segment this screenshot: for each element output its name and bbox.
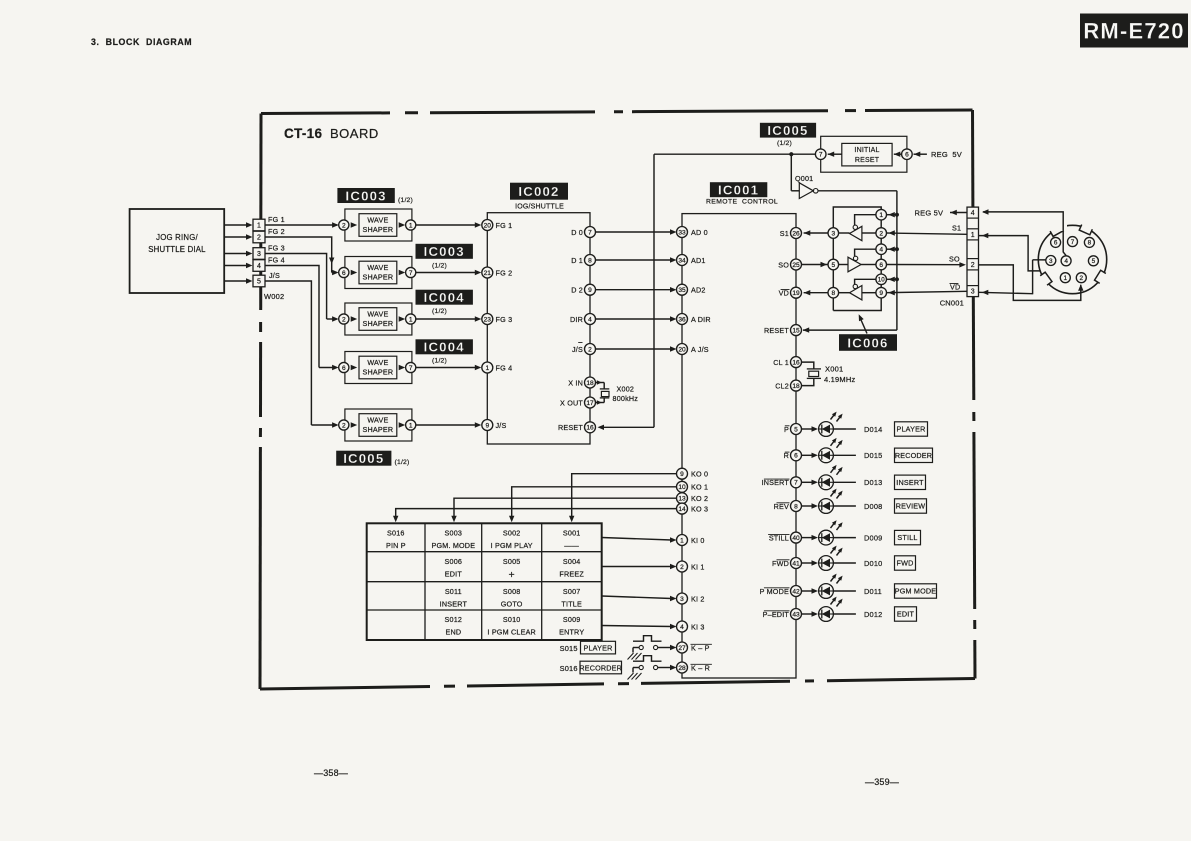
svg-text:5: 5 bbox=[1092, 258, 1096, 265]
svg-text:PIN P: PIN P bbox=[386, 541, 406, 550]
label IC001 bbox=[710, 182, 767, 197]
svg-text:40: 40 bbox=[792, 535, 800, 542]
svg-text:——: —— bbox=[564, 541, 579, 550]
svg-text:CN001: CN001 bbox=[940, 299, 964, 308]
svg-text:9: 9 bbox=[485, 422, 489, 429]
svg-text:ENTRY: ENTRY bbox=[559, 628, 584, 637]
svg-text:41: 41 bbox=[792, 560, 800, 567]
svg-text:CT-16: CT-16 bbox=[284, 126, 322, 141]
net VD: CN001-3 to IC006 pin9 bbox=[887, 291, 967, 292]
svg-text:GOTO: GOTO bbox=[501, 599, 523, 608]
svg-text:D011: D011 bbox=[864, 587, 882, 596]
svg-text:J/S: J/S bbox=[572, 345, 583, 354]
svg-text:BOARD: BOARD bbox=[330, 126, 379, 141]
svg-text:7: 7 bbox=[588, 229, 592, 236]
svg-text:PLAYER: PLAYER bbox=[896, 425, 925, 434]
svg-text:INITIAL: INITIAL bbox=[854, 147, 879, 154]
IC001 block (remote control microcomputer) bbox=[682, 214, 796, 678]
svg-text:IC002: IC002 bbox=[518, 184, 559, 199]
IC002 block (JOG/SHUTTLE processor) bbox=[487, 213, 590, 444]
8-pin remote connector (mating plug) bbox=[1038, 225, 1106, 293]
svg-text:IC005: IC005 bbox=[767, 123, 808, 138]
svg-text:8: 8 bbox=[831, 290, 835, 297]
svg-text:8: 8 bbox=[794, 503, 798, 510]
svg-text:2: 2 bbox=[588, 346, 592, 353]
svg-text:SO: SO bbox=[778, 260, 789, 269]
wave shaper A (IC003 1/2), pins 2-1 bbox=[345, 209, 412, 241]
svg-text:8: 8 bbox=[588, 257, 592, 264]
svg-text:FG 1: FG 1 bbox=[268, 215, 285, 224]
svg-text:3: 3 bbox=[971, 289, 975, 296]
svg-text:42: 42 bbox=[792, 588, 800, 595]
CT-16 board outline: right edge bbox=[971, 110, 974, 207]
svg-text:WAVE: WAVE bbox=[367, 263, 388, 272]
svg-text:KI 0: KI 0 bbox=[691, 536, 705, 545]
svg-text:16: 16 bbox=[792, 359, 800, 366]
svg-text:A J/S: A J/S bbox=[691, 345, 709, 354]
svg-text:800kHz: 800kHz bbox=[613, 394, 639, 403]
svg-text:25: 25 bbox=[792, 262, 800, 269]
IC006 buffer 1 (S1, pointing left) with enable bubble bbox=[850, 226, 862, 240]
svg-text:WAVE: WAVE bbox=[367, 215, 388, 224]
svg-text:IC003: IC003 bbox=[424, 244, 465, 259]
svg-text:15: 15 bbox=[792, 327, 800, 334]
svg-text:S012: S012 bbox=[445, 615, 463, 624]
svg-text:6: 6 bbox=[794, 453, 798, 460]
svg-text:7: 7 bbox=[409, 270, 413, 277]
svg-text:Q001: Q001 bbox=[795, 174, 813, 183]
svg-text:1: 1 bbox=[409, 222, 413, 229]
IC005 initial reset block bbox=[821, 136, 907, 172]
svg-text:JOG RING/: JOG RING/ bbox=[156, 233, 198, 242]
svg-text:36: 36 bbox=[678, 316, 686, 323]
svg-text:PGM. MODE: PGM. MODE bbox=[431, 541, 475, 550]
svg-text:D 0: D 0 bbox=[571, 228, 583, 237]
svg-text:D013: D013 bbox=[864, 478, 882, 487]
svg-text:EDIT: EDIT bbox=[445, 569, 463, 578]
label IC005 (first half) bbox=[760, 123, 816, 138]
svg-text:X IN: X IN bbox=[568, 378, 583, 387]
svg-text:KO 3: KO 3 bbox=[691, 504, 708, 513]
svg-text:5: 5 bbox=[794, 426, 798, 433]
svg-text:2: 2 bbox=[342, 222, 346, 229]
svg-text:+: + bbox=[509, 569, 515, 581]
svg-text:3. BLOCK DIAGRAM: 3. BLOCK DIAGRAM bbox=[91, 37, 192, 47]
svg-text:9: 9 bbox=[588, 287, 592, 294]
svg-text:18: 18 bbox=[586, 380, 594, 387]
crystal X002 800kHz bbox=[596, 382, 605, 384]
svg-text:SHAPER: SHAPER bbox=[363, 368, 394, 377]
svg-text:FG 4: FG 4 bbox=[496, 363, 513, 372]
wire connector pin3 to CN001-1 (S1) bbox=[979, 236, 1041, 271]
svg-text:6: 6 bbox=[342, 365, 346, 372]
svg-text:18: 18 bbox=[792, 383, 800, 390]
svg-text:WAVE: WAVE bbox=[367, 415, 388, 424]
IC001 left pins 33,34,35,36,20 (AD0-AD2, A DIR, A J/S) bbox=[677, 227, 688, 238]
svg-text:X001: X001 bbox=[825, 365, 843, 374]
svg-text:J/S: J/S bbox=[496, 421, 507, 430]
wire connector pin4 to CN001-4 (REG 5V) bbox=[983, 212, 1066, 256]
wire IC006 pin8 to IC001 VD pin19 bbox=[804, 292, 828, 294]
connector CN001 (pads 4,1,2,3 on board edge) bbox=[967, 207, 979, 297]
svg-text:S016: S016 bbox=[387, 529, 405, 538]
svg-text:—359—: —359— bbox=[865, 777, 899, 787]
svg-text:14: 14 bbox=[678, 506, 686, 513]
svg-text:EDIT: EDIT bbox=[897, 610, 915, 619]
svg-text:END: END bbox=[445, 628, 461, 637]
svg-text:INSERT: INSERT bbox=[896, 478, 924, 487]
key matrix table S001-S012, S016 bbox=[367, 523, 602, 640]
wires KO0-KO3 from IC001 to key matrix columns bbox=[572, 474, 677, 519]
svg-text:A DIR: A DIR bbox=[691, 315, 711, 324]
svg-text:26: 26 bbox=[792, 230, 800, 237]
svg-text:SHAPER: SHAPER bbox=[363, 425, 394, 434]
IC006 pins 3,5,8 (left) and 1,2,4,6,10,9 (right) bbox=[828, 228, 839, 239]
svg-text:6: 6 bbox=[879, 262, 883, 269]
wire IC001 SO pin25 to IC006 pin5 bbox=[802, 264, 829, 266]
svg-text:1: 1 bbox=[485, 365, 489, 372]
svg-text:REVIEW: REVIEW bbox=[896, 502, 926, 511]
svg-text:4: 4 bbox=[257, 263, 261, 270]
IC002 left pins 20,21,23,1,9 (FG1-FG4, J/S) bbox=[482, 220, 493, 231]
svg-text:S009: S009 bbox=[563, 615, 581, 624]
svg-text:6: 6 bbox=[1054, 240, 1058, 247]
svg-text:STILL: STILL bbox=[897, 533, 917, 542]
svg-text:KO 1: KO 1 bbox=[691, 483, 708, 492]
svg-text:I PGM CLEAR: I PGM CLEAR bbox=[487, 628, 536, 637]
svg-text:IOG/SHUTTLE: IOG/SHUTTLE bbox=[515, 204, 564, 211]
svg-text:KI 2: KI 2 bbox=[691, 594, 705, 603]
crystal X001 4.19MHz bbox=[802, 362, 814, 369]
svg-text:S015: S015 bbox=[560, 644, 578, 653]
svg-text:20: 20 bbox=[484, 222, 492, 229]
label IC005 (second half) bbox=[336, 451, 391, 466]
svg-text:5: 5 bbox=[831, 262, 835, 269]
connector W002 pads 1-5 bbox=[253, 219, 265, 231]
CT-16 board outline: left edge bbox=[259, 114, 262, 311]
svg-text:4: 4 bbox=[680, 624, 684, 631]
svg-text:D015: D015 bbox=[864, 451, 882, 460]
CT-16 board outline: bottom edge bbox=[260, 687, 430, 690]
IC005 pin 6 bbox=[902, 149, 913, 160]
model label RM-E720 bbox=[1080, 14, 1188, 48]
svg-text:REMOTE CONTROL: REMOTE CONTROL bbox=[706, 199, 778, 206]
connector pins 1-8 bbox=[1051, 237, 1061, 247]
svg-text:33: 33 bbox=[678, 229, 686, 236]
svg-text:S002: S002 bbox=[503, 529, 521, 538]
svg-text:PLAYER: PLAYER bbox=[583, 644, 612, 653]
svg-text:1: 1 bbox=[409, 316, 413, 323]
svg-text:RESET: RESET bbox=[558, 423, 583, 432]
svg-text:(1/2): (1/2) bbox=[395, 459, 410, 466]
svg-text:TITLE: TITLE bbox=[561, 599, 582, 608]
wave shaper D (IC004 1/2), pins 6-7 bbox=[345, 352, 412, 384]
svg-text:8: 8 bbox=[1088, 240, 1092, 247]
svg-text:KI 3: KI 3 bbox=[691, 622, 705, 631]
svg-text:(1/2): (1/2) bbox=[432, 308, 447, 315]
IC001 left pins 27,28 (K-P, K-R) bbox=[677, 642, 688, 653]
svg-text:21: 21 bbox=[484, 270, 492, 277]
svg-text:27: 27 bbox=[678, 645, 686, 652]
svg-text:FREEZ: FREEZ bbox=[559, 569, 584, 578]
wire connector pin1 area to CN001-3 (VD) bbox=[979, 292, 1033, 293]
svg-text:REG 5V: REG 5V bbox=[931, 150, 962, 159]
wires key matrix rows to KI0-KI3 bbox=[602, 538, 672, 541]
svg-text:KO 0: KO 0 bbox=[691, 470, 708, 479]
svg-text:CL 1: CL 1 bbox=[773, 358, 789, 367]
wave shaper E (IC005 1/2), pins 2-1 bbox=[345, 409, 412, 441]
net SO: IC006 pin6 to CN001-2 bbox=[887, 264, 963, 266]
wire FG2: W002-2 to wave shaper B bbox=[265, 237, 332, 273]
wire REG 5V into IC005 pin 6 bbox=[914, 153, 927, 155]
svg-text:7: 7 bbox=[409, 365, 413, 372]
svg-text:43: 43 bbox=[792, 611, 800, 618]
svg-text:FG 4: FG 4 bbox=[268, 256, 285, 265]
svg-text:34: 34 bbox=[678, 257, 686, 264]
svg-text:7: 7 bbox=[819, 152, 823, 159]
svg-text:S010: S010 bbox=[503, 615, 521, 624]
svg-text:SHAPER: SHAPER bbox=[363, 273, 394, 282]
svg-text:9: 9 bbox=[680, 471, 684, 478]
label IC004 (first half) bbox=[416, 290, 473, 305]
wire Q001 output trunk to IC006 / IC001 RESET bbox=[818, 190, 897, 192]
svg-text:4: 4 bbox=[1064, 258, 1068, 265]
svg-text:S1: S1 bbox=[952, 224, 961, 233]
svg-text:S1: S1 bbox=[780, 229, 789, 238]
svg-text:2: 2 bbox=[257, 235, 261, 242]
IC001 left pins 1,2,3,4 (KI 0-3) bbox=[677, 535, 688, 546]
svg-text:IC004: IC004 bbox=[424, 340, 465, 355]
label IC002 bbox=[510, 183, 568, 200]
svg-text:6: 6 bbox=[342, 270, 346, 277]
svg-text:1: 1 bbox=[409, 422, 413, 429]
svg-text:2: 2 bbox=[342, 316, 346, 323]
wires IC002 data bus to IC001 (D0-D2, DIR, J/S) bbox=[596, 231, 672, 233]
svg-text:6: 6 bbox=[905, 152, 909, 159]
label IC006 with pointer arrow bbox=[839, 334, 897, 351]
svg-text:2: 2 bbox=[879, 230, 883, 237]
svg-text:IC003: IC003 bbox=[345, 188, 386, 203]
svg-text:X002: X002 bbox=[617, 385, 635, 394]
svg-text:AD2: AD2 bbox=[691, 286, 706, 295]
svg-text:(1/2): (1/2) bbox=[432, 263, 447, 270]
svg-text:INSERT: INSERT bbox=[440, 599, 468, 608]
svg-text:4: 4 bbox=[588, 316, 592, 323]
wire FG1: W002-1 to wave shaper A bbox=[265, 224, 338, 226]
IC005 pin 7 bbox=[815, 149, 826, 160]
svg-text:2: 2 bbox=[342, 422, 346, 429]
wires jog dial to W002 pads bbox=[224, 224, 247, 226]
wire FG4: W002-4 to wave shaper D bbox=[265, 266, 319, 368]
wire connector pin2 to CN001-2 (SO) bbox=[979, 265, 1081, 301]
svg-text:2: 2 bbox=[971, 262, 975, 269]
svg-text:7: 7 bbox=[1071, 239, 1075, 246]
wires Q001 trunk to IC006 enable pins 1,4,10 bbox=[887, 214, 897, 216]
svg-text:7: 7 bbox=[794, 480, 798, 487]
svg-text:CL2: CL2 bbox=[775, 381, 789, 390]
svg-text:4: 4 bbox=[879, 247, 883, 254]
label IC003 (first half) bbox=[337, 188, 394, 203]
wire IC005 pin7 to IC002 RESET pin16 bbox=[654, 153, 815, 155]
svg-text:4.19MHz: 4.19MHz bbox=[824, 375, 855, 384]
wire IC006 pin3 to IC001 S1 pin26 bbox=[804, 232, 828, 234]
svg-text:RM-E720: RM-E720 bbox=[1083, 18, 1184, 43]
svg-text:(1/2): (1/2) bbox=[777, 140, 792, 147]
svg-text:S005: S005 bbox=[503, 557, 521, 566]
label IC004 (second half) bbox=[416, 339, 473, 354]
svg-text:S011: S011 bbox=[445, 587, 462, 596]
CT-16 board outline: top edge (dashed breaks) bbox=[261, 111, 390, 115]
svg-text:SO: SO bbox=[949, 255, 960, 264]
svg-text:D010: D010 bbox=[864, 559, 882, 568]
svg-text:(1/2): (1/2) bbox=[432, 358, 447, 365]
svg-text:DIR: DIR bbox=[570, 315, 583, 324]
svg-text:D012: D012 bbox=[864, 610, 882, 619]
wire J/S: W002-5 to wave shaper E bbox=[265, 281, 311, 425]
svg-text:IC004: IC004 bbox=[424, 290, 465, 305]
svg-text:S007: S007 bbox=[563, 587, 581, 596]
svg-text:3: 3 bbox=[257, 251, 261, 258]
svg-text:—358—: —358— bbox=[314, 768, 348, 778]
svg-text:IC001: IC001 bbox=[718, 182, 759, 197]
wave shaper C (IC004 1/2), pins 2-1 bbox=[345, 303, 412, 335]
svg-text:W002: W002 bbox=[264, 292, 284, 301]
svg-text:FG 3: FG 3 bbox=[268, 244, 285, 253]
svg-text:RESET: RESET bbox=[855, 157, 880, 164]
svg-text:FG 2: FG 2 bbox=[268, 227, 285, 236]
svg-text:19: 19 bbox=[792, 290, 800, 297]
svg-text:RESET: RESET bbox=[764, 326, 789, 335]
svg-text:RECORDER: RECORDER bbox=[579, 664, 622, 673]
svg-text:10: 10 bbox=[878, 277, 885, 284]
wave shaper B (IC003 1/2), pins 6-7 bbox=[345, 257, 412, 289]
svg-text:FG 3: FG 3 bbox=[496, 315, 513, 324]
svg-text:35: 35 bbox=[678, 287, 686, 294]
wire FG3: W002-3 to wave shaper C bbox=[265, 254, 327, 320]
junction node at Q001 input bbox=[789, 152, 793, 156]
label IC003 (second half) bbox=[416, 244, 473, 259]
svg-text:KI 1: KI 1 bbox=[691, 562, 705, 571]
svg-text:28: 28 bbox=[678, 665, 686, 672]
jog ring / shuttle dial block bbox=[130, 209, 225, 293]
svg-text:I PGM PLAY: I PGM PLAY bbox=[491, 541, 533, 550]
svg-text:IC005: IC005 bbox=[343, 451, 384, 466]
svg-text:S001: S001 bbox=[563, 529, 581, 538]
svg-text:5: 5 bbox=[257, 279, 261, 286]
svg-text:17: 17 bbox=[586, 400, 594, 407]
net S1: CN001-1 to IC006 pin2 bbox=[887, 233, 967, 234]
svg-text:IC006: IC006 bbox=[847, 335, 888, 350]
svg-text:FWD: FWD bbox=[897, 559, 914, 568]
svg-text:S006: S006 bbox=[445, 557, 463, 566]
IC006 buffer 3 (VD, pointing left) with enable bubble bbox=[850, 286, 862, 300]
svg-text:(1/2): (1/2) bbox=[398, 197, 413, 204]
svg-text:PGM MODE: PGM MODE bbox=[895, 587, 937, 596]
svg-text:4: 4 bbox=[971, 210, 975, 217]
svg-text:WAVE: WAVE bbox=[367, 358, 388, 367]
svg-text:16: 16 bbox=[586, 425, 594, 432]
svg-text:AD1: AD1 bbox=[691, 256, 706, 265]
svg-text:2: 2 bbox=[680, 564, 684, 571]
svg-text:10: 10 bbox=[678, 484, 686, 491]
svg-text:D 1: D 1 bbox=[571, 256, 583, 265]
svg-text:S008: S008 bbox=[503, 587, 521, 596]
svg-text:1: 1 bbox=[971, 232, 975, 239]
IC001 left pins 9,10,13,14 (KO 0-3) bbox=[677, 468, 688, 479]
svg-text:S016: S016 bbox=[560, 664, 578, 673]
svg-text:D014: D014 bbox=[864, 425, 882, 434]
svg-text:S004: S004 bbox=[563, 557, 581, 566]
svg-text:1: 1 bbox=[257, 223, 261, 230]
svg-text:SHAPER: SHAPER bbox=[363, 319, 394, 328]
svg-text:X OUT: X OUT bbox=[560, 398, 583, 407]
svg-text:D 2: D 2 bbox=[571, 286, 583, 295]
svg-text:RECODER: RECODER bbox=[895, 451, 932, 460]
svg-text:D009: D009 bbox=[864, 533, 882, 542]
svg-text:1: 1 bbox=[680, 537, 684, 544]
IC006 buffer 2 (SO, pointing right) with enable bubble bbox=[848, 257, 861, 272]
svg-text:REG 5V: REG 5V bbox=[915, 209, 944, 218]
svg-text:3: 3 bbox=[831, 230, 835, 237]
svg-text:SHAPER: SHAPER bbox=[363, 225, 394, 234]
svg-text:KO 2: KO 2 bbox=[691, 494, 708, 503]
svg-text:FG 1: FG 1 bbox=[496, 221, 513, 230]
svg-text:SHUTTLE DIAL: SHUTTLE DIAL bbox=[148, 245, 206, 254]
svg-text:FG 2: FG 2 bbox=[496, 268, 513, 277]
svg-text:1: 1 bbox=[879, 212, 883, 219]
svg-text:J/S: J/S bbox=[269, 271, 280, 280]
svg-text:3: 3 bbox=[1049, 258, 1053, 265]
wire REG 5V from CN001-4 bbox=[950, 212, 967, 214]
svg-text:AD 0: AD 0 bbox=[691, 228, 708, 237]
svg-text:23: 23 bbox=[484, 316, 492, 323]
IC006 buffer block outline bbox=[833, 207, 881, 228]
svg-text:2: 2 bbox=[1080, 275, 1084, 282]
svg-text:9: 9 bbox=[879, 290, 883, 297]
svg-text:WAVE: WAVE bbox=[367, 309, 388, 318]
svg-text:13: 13 bbox=[678, 496, 686, 503]
svg-text:S003: S003 bbox=[445, 529, 463, 538]
svg-text:3: 3 bbox=[680, 596, 684, 603]
svg-text:20: 20 bbox=[678, 346, 686, 353]
svg-text:D008: D008 bbox=[864, 502, 882, 511]
svg-text:1: 1 bbox=[1064, 275, 1068, 282]
